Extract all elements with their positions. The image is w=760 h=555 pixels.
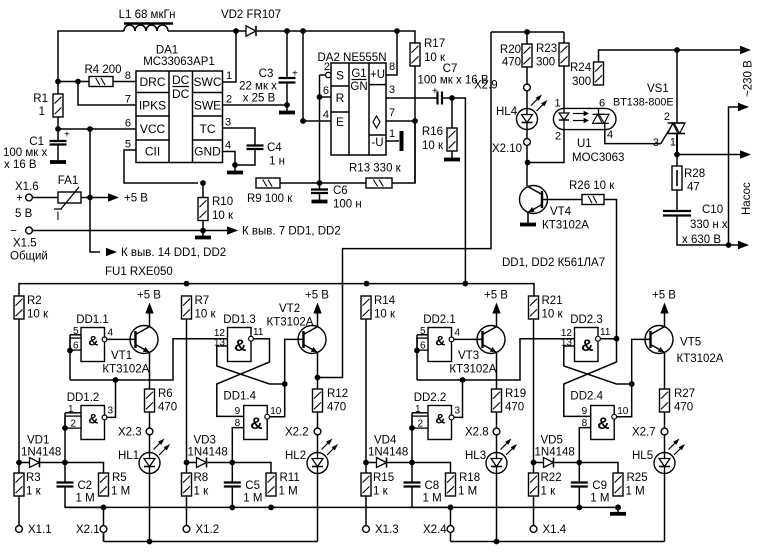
svg-text:X2.1: X2.1	[76, 524, 100, 536]
wire U1 pin2 to VT4 collector	[528, 130, 565, 163]
svg-text:DD2.4: DD2.4	[570, 391, 603, 403]
terminal X2.3	[118, 412, 153, 439]
svg-text:X2.10: X2.10	[492, 143, 522, 155]
wire right +rail	[491, 29, 564, 35]
svg-text:3: 3	[653, 137, 659, 149]
svg-text:+5 В: +5 В	[137, 290, 161, 302]
NAND gate DD2.4	[570, 391, 628, 440]
node +5V flag right	[90, 193, 148, 205]
svg-text:DRC: DRC	[140, 75, 166, 89]
wire low rail	[104, 541, 318, 543]
wire R10 bottom	[202, 221, 204, 231]
svg-text:КТ3102А: КТ3102А	[102, 364, 149, 376]
terminal X2.4	[423, 507, 454, 536]
ground under R16	[444, 151, 460, 160]
ground under VT4	[520, 223, 536, 227]
svg-text:C6: C6	[333, 185, 348, 197]
wire link line	[70, 339, 228, 383]
svg-text:11: 11	[600, 327, 611, 338]
inversion circle pin 2	[320, 72, 331, 77]
resistor R13	[349, 163, 402, 189]
wire R2 to diode node	[16, 319, 22, 465]
inductor L1	[119, 9, 176, 31]
wire diode to node	[41, 460, 68, 466]
svg-text:R26 10 к: R26 10 к	[569, 180, 615, 192]
svg-text:300: 300	[572, 76, 591, 88]
svg-text:SWE: SWE	[194, 99, 221, 113]
wire R4 to DA1 pin 8	[113, 81, 136, 83]
wire TC pin3 to C4	[223, 128, 256, 146]
diode VD2	[221, 9, 281, 36]
svg-text:R3: R3	[26, 472, 41, 484]
resistor R26	[569, 180, 615, 205]
svg-text:7: 7	[125, 94, 131, 106]
svg-text:DD2.1: DD2.1	[423, 314, 456, 326]
svg-text:DC: DC	[172, 73, 190, 87]
svg-text:7: 7	[389, 107, 395, 119]
terminal X2.1	[76, 507, 107, 536]
capacitor C5	[224, 463, 263, 511]
svg-text:470: 470	[158, 402, 177, 414]
svg-text:R10: R10	[212, 196, 233, 208]
wire R1 node to R4	[55, 79, 89, 85]
svg-text:R21: R21	[542, 295, 563, 307]
svg-text:+: +	[16, 193, 23, 205]
svg-text:Насос: Насос	[741, 182, 753, 215]
wire emitter VT1	[149, 353, 151, 389]
wire collector +5V flag VT2	[305, 290, 329, 327]
NAND gate DD1.2	[65, 392, 114, 440]
transistor VT5	[645, 326, 673, 354]
svg-text:C4: C4	[267, 142, 282, 154]
label DD1 DD2 chip type	[502, 257, 605, 269]
svg-text:КТ3102А: КТ3102А	[677, 353, 724, 365]
svg-text:VS1: VS1	[647, 83, 669, 95]
resistor R10	[198, 183, 234, 222]
capacitor C1	[3, 129, 70, 171]
transistor VT4	[520, 186, 590, 232]
svg-text:8: 8	[125, 70, 131, 82]
svg-text:R13 330 к: R13 330 к	[349, 163, 402, 175]
wire low rail	[451, 541, 665, 543]
svg-text:300: 300	[536, 57, 555, 69]
svg-text:1N4148: 1N4148	[21, 447, 61, 459]
svg-text:5: 5	[420, 326, 426, 337]
arrow to pin 7 DD1 DD2	[227, 226, 341, 238]
wire HL3 to low rail	[494, 474, 500, 545]
svg-text:5 В: 5 В	[15, 208, 33, 220]
svg-text:1: 1	[68, 404, 74, 415]
resistor R21	[529, 295, 564, 321]
svg-text:VT2: VT2	[279, 303, 300, 315]
wire +U pin 8 riser	[386, 31, 397, 75]
LED HL2	[285, 435, 338, 474]
wire +5V vertical to K vyv 14	[90, 129, 100, 252]
svg-text:C10: C10	[702, 204, 723, 216]
optocoupler U1 MOC3063	[553, 98, 624, 165]
svg-text:R27: R27	[674, 388, 695, 400]
svg-text:R: R	[336, 91, 345, 105]
svg-text:1 к: 1 к	[194, 486, 210, 498]
svg-text:R7: R7	[195, 295, 210, 307]
svg-text:6: 6	[599, 98, 605, 110]
wire GND pin4	[223, 152, 236, 172]
svg-text:GN: GN	[350, 81, 367, 93]
resistor R8	[182, 463, 210, 498]
wire mid rail to R5	[65, 505, 106, 511]
diode VD1	[19, 435, 61, 468]
capacitor C7	[417, 63, 488, 105]
svg-text:470: 470	[327, 402, 346, 414]
svg-text:22 мк х: 22 мк х	[239, 81, 277, 93]
wire VS1 out arrow	[677, 150, 751, 158]
resistor R24	[570, 62, 604, 88]
svg-text:DD2.3: DD2.3	[570, 314, 603, 326]
svg-text:+5 В: +5 В	[124, 193, 148, 205]
svg-text:КТ3102А: КТ3102А	[449, 364, 496, 376]
svg-text:х 16 В: х 16 В	[4, 159, 37, 171]
capacitor C2	[57, 463, 95, 508]
svg-text:X2.3: X2.3	[118, 427, 142, 439]
svg-text:R1: R1	[33, 93, 48, 105]
wire SWE pin2 to C3 node	[223, 102, 290, 108]
wire DD1.1 inputs down	[67, 335, 73, 380]
wire S-R tie vertical	[317, 75, 323, 183]
resistor R23	[536, 32, 569, 69]
svg-text:R8: R8	[194, 472, 209, 484]
svg-text:330 н х: 330 н х	[690, 219, 728, 231]
svg-text:4: 4	[323, 109, 329, 121]
svg-text:VT1: VT1	[111, 350, 132, 362]
LED HL1	[118, 435, 170, 474]
svg-text:1 М: 1 М	[423, 493, 442, 505]
svg-text:MC33063AP1: MC33063AP1	[143, 56, 215, 68]
svg-text:G1: G1	[351, 68, 366, 80]
svg-text:~230 В: ~230 В	[743, 60, 755, 97]
resistor R7	[182, 295, 217, 321]
svg-text:2: 2	[418, 419, 424, 430]
ground on mid rail	[610, 505, 626, 514]
terminal X1.6	[15, 181, 39, 220]
wire gate2 input 8 down	[232, 428, 243, 463]
svg-text:FA1: FA1	[58, 175, 78, 187]
wire collector +5V flag VT3	[484, 290, 508, 327]
triac VS1	[653, 50, 685, 155]
wire R24 top to 230V line	[599, 47, 680, 62]
svg-text:4: 4	[455, 328, 461, 339]
wire diode to node	[555, 460, 583, 466]
wire base VT3	[454, 338, 483, 340]
wire gate2 output 10 feedback	[270, 339, 304, 416]
ground under C3 node	[279, 105, 295, 113]
wire R9 to C6 node	[280, 180, 366, 186]
svg-text:1 М: 1 М	[458, 486, 477, 498]
svg-text:X1.6: X1.6	[15, 181, 39, 193]
terminal X2.8	[465, 412, 500, 439]
capacitor C3	[239, 31, 298, 105]
terminal X2.9	[474, 67, 530, 92]
svg-text:R12: R12	[327, 388, 348, 400]
svg-text:2: 2	[226, 94, 232, 106]
ground under C6	[312, 200, 328, 204]
svg-text:+: +	[292, 69, 298, 80]
wire DD1.2 inputs down	[62, 413, 68, 463]
svg-text:X1.4: X1.4	[543, 524, 567, 536]
svg-text:&: &	[435, 410, 445, 426]
svg-text:DD2.2: DD2.2	[414, 392, 447, 404]
svg-text:X1.3: X1.3	[375, 524, 399, 536]
svg-text:6: 6	[323, 85, 329, 97]
svg-text:1 М: 1 М	[243, 493, 262, 505]
wire CII pin5 to divider	[124, 150, 206, 186]
svg-text:10 к: 10 к	[212, 210, 234, 222]
svg-text:1 к: 1 к	[373, 486, 389, 498]
svg-text:&: &	[597, 414, 609, 433]
svg-text:HL1: HL1	[118, 450, 139, 462]
svg-text:R20: R20	[500, 44, 521, 56]
resistor R1	[33, 93, 63, 118]
svg-text:10 к: 10 к	[542, 309, 564, 321]
wire pump return arrows	[726, 103, 749, 249]
wire -U pin 1	[386, 140, 399, 142]
wire DD2.1 inputs down	[414, 335, 420, 380]
svg-text:9: 9	[235, 406, 241, 417]
wire collector +5V flag VT5	[652, 290, 676, 327]
ground bar pin 1	[400, 131, 404, 151]
svg-text:&: &	[435, 332, 445, 348]
wire U1 pin4 to VS1 gate	[605, 130, 661, 144]
wire top rail left segment with corner above R1	[58, 31, 124, 94]
terminal X1.1	[16, 496, 52, 536]
terminal X1.5	[10, 226, 48, 263]
wire emitter VT3	[496, 353, 498, 389]
svg-text:R5: R5	[112, 472, 127, 484]
svg-text:1 к: 1 к	[541, 486, 557, 498]
terminal X1.3	[363, 496, 399, 536]
wire AC excitation rail	[19, 281, 534, 296]
diode VD3	[187, 435, 228, 468]
svg-text:HL4: HL4	[496, 106, 518, 118]
wire diode to node	[388, 460, 415, 466]
svg-text:4: 4	[108, 328, 114, 339]
wire HL5 to low rail	[664, 474, 666, 542]
svg-text:КТ3102А: КТ3102А	[542, 220, 589, 232]
svg-text:X1.2: X1.2	[196, 524, 220, 536]
svg-text:&: &	[88, 410, 98, 426]
svg-text:47: 47	[687, 182, 700, 194]
svg-text:E: E	[336, 115, 344, 129]
svg-text:TC: TC	[200, 122, 216, 136]
wire line-B to VT2 emitter	[318, 32, 492, 378]
wire X1.6 to FA1	[32, 197, 58, 199]
svg-text:VT4: VT4	[550, 206, 572, 218]
wire link line	[417, 339, 575, 383]
wire VCC line	[55, 117, 136, 132]
wire SWC pin1 riser	[223, 31, 237, 82]
resistor R17	[410, 38, 446, 66]
resistor R28	[672, 155, 705, 194]
svg-text:R2: R2	[27, 295, 42, 307]
label VT5	[677, 337, 724, 366]
svg-text:4: 4	[225, 140, 231, 152]
capacitor C8	[404, 463, 442, 508]
svg-text:3: 3	[108, 406, 114, 417]
resistor R27	[660, 388, 696, 414]
svg-text:CII: CII	[145, 145, 160, 159]
wire VT4 emitter	[527, 212, 529, 223]
wire C4 to gnd node	[232, 149, 255, 168]
svg-text:DC: DC	[172, 87, 190, 101]
svg-text:1N4148: 1N4148	[535, 447, 575, 459]
svg-text:C9: C9	[592, 480, 607, 492]
svg-text:+5 В: +5 В	[305, 290, 329, 302]
svg-text:9: 9	[582, 406, 588, 417]
label 230V	[743, 60, 755, 97]
wire mid rail to R18	[412, 505, 453, 511]
svg-text:MOC3063: MOC3063	[572, 152, 624, 164]
svg-text:HL5: HL5	[632, 450, 653, 462]
svg-text:IPKS: IPKS	[139, 99, 166, 113]
svg-text:R28: R28	[684, 168, 705, 180]
diode VD4	[366, 435, 408, 468]
capacitor C10	[663, 190, 728, 246]
resistor R19	[492, 388, 527, 414]
wire diode to node	[208, 460, 236, 466]
svg-text:R24: R24	[570, 62, 592, 74]
wire C10 to pump rail	[677, 216, 729, 246]
wire low rail ch12 end	[103, 532, 105, 541]
wire gate1 output to gate2 input 9	[217, 339, 270, 417]
svg-text:VD3: VD3	[194, 435, 216, 447]
svg-text:1: 1	[39, 106, 45, 118]
diode VD5	[534, 435, 575, 468]
svg-text:VT5: VT5	[680, 337, 701, 349]
node DD2.3 output to R26	[614, 336, 620, 342]
svg-text:L1 68 мкГн: L1 68 мкГн	[119, 9, 176, 21]
svg-text:X1.1: X1.1	[28, 524, 52, 536]
wire R23 to U1 pin1	[563, 66, 565, 108]
LED HL5	[632, 435, 685, 474]
svg-text:VT3: VT3	[458, 350, 479, 362]
svg-text:C3: C3	[259, 68, 274, 80]
svg-text:&: &	[88, 332, 98, 348]
wire C7 riser to AC bus	[452, 98, 465, 284]
wire R26 to DD2.3 output	[604, 200, 617, 339]
wire top rail L1 to VD2	[168, 28, 246, 34]
svg-text:R23: R23	[536, 43, 557, 55]
NAND gate DD1.1	[70, 314, 114, 362]
svg-text:R4 200: R4 200	[84, 64, 121, 76]
NAND gate DD1.3	[214, 314, 264, 362]
svg-text:U1: U1	[577, 138, 592, 150]
svg-text:C8: C8	[425, 480, 440, 492]
svg-text:C2: C2	[78, 480, 93, 492]
resistor R3	[14, 463, 42, 498]
wire DD2.2 inputs down	[409, 413, 415, 463]
svg-text:R17: R17	[424, 38, 445, 50]
resistor R20	[500, 32, 532, 69]
svg-text:100 н: 100 н	[333, 199, 362, 211]
ground under DA1	[227, 171, 243, 175]
svg-text:&: &	[234, 336, 246, 355]
wire DA2 pin 7 lead	[386, 120, 415, 122]
svg-text:R25: R25	[627, 472, 648, 484]
svg-text:Общий: Общий	[10, 251, 48, 263]
svg-text:1 М: 1 М	[279, 486, 298, 498]
wire X2.10 to VT4 collector	[525, 145, 531, 186]
wire pin 3 output	[386, 97, 438, 99]
svg-text:HL2: HL2	[285, 450, 306, 462]
NAND gate DD2.1	[417, 314, 461, 362]
svg-text:+: +	[432, 86, 438, 97]
svg-text:2: 2	[324, 61, 330, 73]
wire X2.4 to low rail	[450, 532, 452, 541]
svg-text:1: 1	[415, 404, 421, 415]
svg-text:1 М: 1 М	[111, 486, 130, 498]
wire R pin 6	[320, 96, 332, 98]
svg-text:−: −	[10, 226, 17, 238]
svg-text:10 к: 10 к	[422, 140, 444, 152]
svg-text:S: S	[336, 69, 344, 83]
svg-text:R11: R11	[280, 472, 300, 484]
wire mid rail	[65, 506, 619, 508]
svg-text:HL3: HL3	[465, 450, 486, 462]
label FU1	[105, 266, 173, 278]
resistor R25	[579, 463, 647, 511]
svg-text:х 25 В: х 25 В	[243, 93, 276, 105]
LED HL4	[496, 91, 548, 130]
svg-text:DD1.1: DD1.1	[76, 314, 109, 326]
svg-text:1: 1	[554, 98, 560, 110]
svg-text:470: 470	[505, 402, 524, 414]
resistor R9	[247, 178, 293, 205]
label Nasos	[741, 182, 753, 215]
svg-text:11: 11	[253, 327, 264, 338]
transistor VT1	[102, 326, 158, 376]
svg-text:SWC: SWC	[194, 75, 222, 89]
svg-text:1 М: 1 М	[626, 486, 645, 498]
wire DD1.2 output riser	[107, 380, 116, 417]
svg-text:К выв. 14 DD1, DD2: К выв. 14 DD1, DD2	[121, 247, 226, 259]
wire R13 to pin7 riser	[392, 118, 418, 183]
svg-text:+5 В: +5 В	[652, 290, 676, 302]
capacitor C6	[311, 183, 362, 211]
wire emitter VT2	[317, 353, 319, 389]
svg-text:GND: GND	[194, 145, 221, 159]
svg-text:1 М: 1 М	[76, 493, 95, 505]
arrow to pin 14 DD1 DD2	[106, 247, 226, 259]
svg-text:5: 5	[73, 326, 79, 337]
NAND gate DD2.2	[412, 392, 461, 440]
resistor R15	[361, 463, 394, 498]
fuse FA1	[54, 175, 81, 223]
svg-text:X2.9: X2.9	[474, 80, 498, 92]
svg-text:х 630 В: х 630 В	[682, 234, 721, 246]
wire X2.1 to low rail	[103, 532, 105, 541]
wire VT4 base to R26	[542, 199, 582, 201]
wire R17 to pin 7	[414, 66, 416, 183]
svg-text:2: 2	[664, 111, 670, 123]
wire gate2 input 8 down	[579, 428, 590, 463]
resistor R16	[422, 98, 457, 152]
wire gate2 output 10 feedback	[617, 339, 651, 416]
label VS1	[613, 83, 674, 109]
svg-text:&: &	[581, 336, 593, 355]
svg-text:10: 10	[617, 406, 629, 417]
svg-text:DD1, DD2 К561ЛА7: DD1, DD2 К561ЛА7	[502, 257, 605, 269]
op-amp U DA1 MC33063AP1	[125, 45, 232, 163]
svg-text:8: 8	[389, 61, 395, 73]
